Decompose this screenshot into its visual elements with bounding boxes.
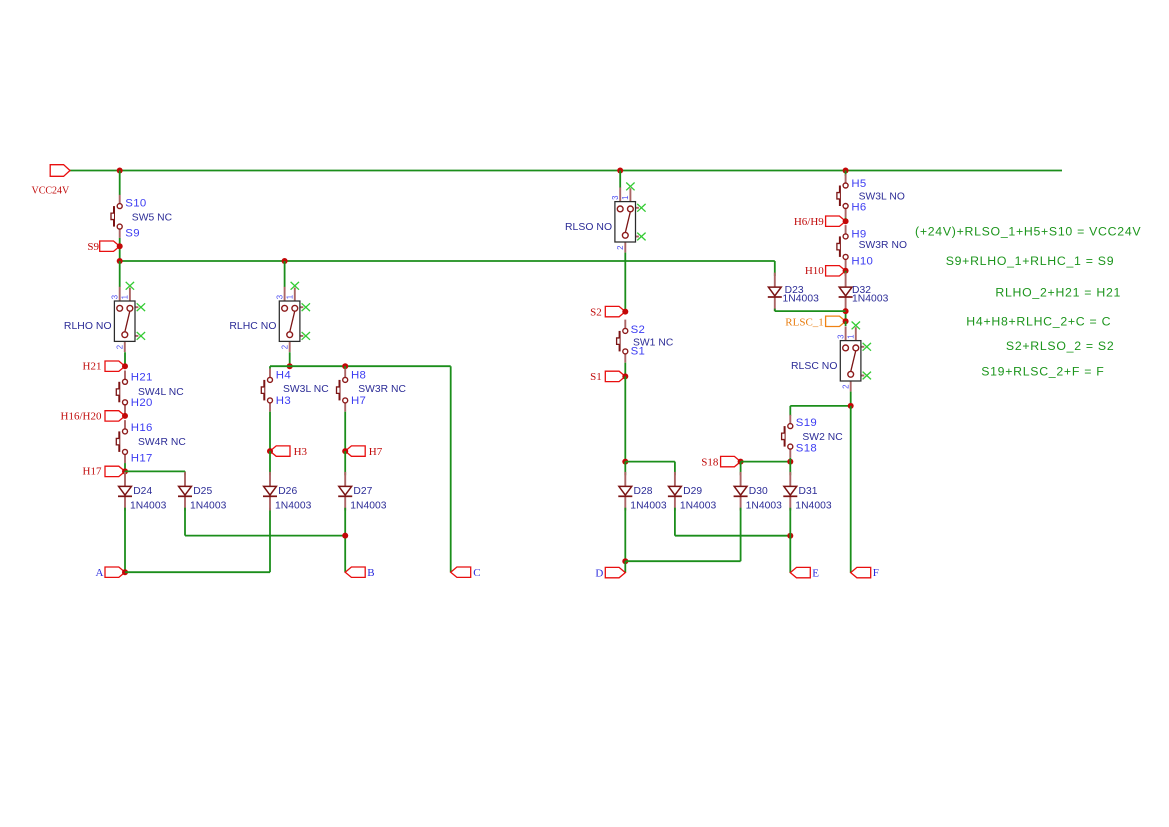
label B text xyxy=(367,567,374,579)
net equation text line 2 xyxy=(946,254,1115,268)
label SW2 NC xyxy=(802,432,843,443)
svg-text:D: D xyxy=(595,567,603,579)
hierarchical label H6/H9 flag xyxy=(826,216,849,226)
label D31 value 1N4003 xyxy=(795,500,832,511)
wire to D30 xyxy=(740,462,742,476)
label D30 value 1N4003 xyxy=(746,500,783,511)
hierarchical label H10 flag xyxy=(826,266,849,276)
hierarchical label H17 flag xyxy=(105,466,128,476)
wire branch down to D25 xyxy=(184,471,186,475)
hierarchical label H7 flag xyxy=(342,446,365,456)
label S19 pin xyxy=(796,417,817,429)
label D26 xyxy=(278,486,297,497)
wire up to D26 xyxy=(269,508,271,573)
junction bus-RLSO column xyxy=(617,168,623,174)
svg-text:1N4003: 1N4003 xyxy=(746,500,783,511)
label D31 xyxy=(799,486,818,497)
wire D25 to B net xyxy=(185,535,345,537)
label H3 pin xyxy=(276,395,291,407)
svg-text:H7: H7 xyxy=(351,395,366,407)
svg-text:RLSC NO: RLSC NO xyxy=(791,361,838,372)
relay RLHC xyxy=(229,282,310,352)
svg-text:SW4R NC: SW4R NC xyxy=(138,437,186,448)
svg-text:2: 2 xyxy=(616,246,625,250)
svg-text:1: 1 xyxy=(121,295,130,299)
wire D30 down xyxy=(740,508,742,562)
svg-text:H7: H7 xyxy=(369,446,383,458)
label SW4L NC xyxy=(138,387,184,398)
svg-text:3: 3 xyxy=(611,196,620,200)
svg-text:SW3L NC: SW3L NC xyxy=(283,384,329,395)
svg-text:3: 3 xyxy=(275,295,284,299)
svg-text:1N4003: 1N4003 xyxy=(783,294,820,305)
svg-text:S10: S10 xyxy=(125,197,146,209)
svg-text:2: 2 xyxy=(115,345,124,349)
svg-text:H8: H8 xyxy=(351,369,366,381)
wire RLSC_1 to RLSC pin3 xyxy=(845,321,847,326)
label D30 xyxy=(749,486,768,497)
label D32 value 1N4003 xyxy=(852,294,889,305)
svg-text:SW3R NO: SW3R NO xyxy=(859,240,907,251)
label H4 pin xyxy=(276,369,291,381)
power flag VCC24V xyxy=(32,165,71,197)
svg-text:S19: S19 xyxy=(796,417,817,429)
svg-text:H17: H17 xyxy=(83,466,102,478)
junction bus-SW5 column xyxy=(117,168,123,174)
wire to D flag xyxy=(624,561,626,572)
svg-text:3: 3 xyxy=(836,335,845,339)
svg-text:1: 1 xyxy=(621,196,630,200)
hierarchical label A xyxy=(105,567,128,577)
diode D25 xyxy=(178,472,192,511)
svg-text:RLSO NO: RLSO NO xyxy=(565,222,612,233)
svg-text:S1: S1 xyxy=(631,345,646,357)
label S9 flag text xyxy=(87,241,99,253)
wire down to SW2 xyxy=(789,406,791,416)
svg-text:1N4003: 1N4003 xyxy=(795,500,832,511)
svg-text:1N4003: 1N4003 xyxy=(275,500,312,511)
net equation text line 6 xyxy=(981,365,1104,379)
junction D23/D32 xyxy=(843,308,849,314)
svg-text:H10: H10 xyxy=(851,255,873,267)
wire row to SW3L xyxy=(269,366,271,369)
switch SW3R NC (H8/H7) xyxy=(337,369,348,412)
svg-text:H3: H3 xyxy=(276,395,291,407)
hierarchical label H21 flag xyxy=(105,361,128,371)
wire SW4R to H17 flag xyxy=(124,463,126,471)
label H5 pin xyxy=(851,178,866,190)
label H7 flag text xyxy=(369,446,383,458)
svg-text:RLHC NO: RLHC NO xyxy=(229,321,276,332)
label S1 flag text xyxy=(590,371,602,383)
wire S1 down xyxy=(624,376,626,461)
label D28 value 1N4003 xyxy=(630,500,667,511)
diode D24 xyxy=(118,472,132,511)
label S18 flag text xyxy=(701,457,719,469)
label D text xyxy=(595,567,603,579)
label S2 flag text xyxy=(590,307,602,319)
label S10 xyxy=(125,197,146,209)
label H16/H20 flag text xyxy=(61,410,102,422)
svg-text:D29: D29 xyxy=(683,486,702,497)
wire to F flag xyxy=(850,406,852,573)
relay RLHO xyxy=(64,282,145,352)
wire SW1 to S1 flag xyxy=(624,363,626,377)
svg-text:S9+RLHO_1+RLHC_1 = S9: S9+RLHO_1+RLHC_1 = S9 xyxy=(946,254,1115,268)
diode D31 xyxy=(783,472,797,511)
svg-text:RLHO NO: RLHO NO xyxy=(64,321,112,332)
switch SW5 (S10/S9) xyxy=(111,195,122,238)
wire H17 to D24 xyxy=(124,471,126,475)
label H6 pin xyxy=(851,201,866,213)
label RLSC_1 flag text xyxy=(785,316,824,328)
wire H17 to D25 branch xyxy=(125,470,185,472)
wire second bus S9 net xyxy=(120,260,775,262)
svg-text:RLSC_1: RLSC_1 xyxy=(785,316,824,328)
svg-text:(+24V)+RLSO_1+H5+S10 = VCC24V: (+24V)+RLSO_1+H5+S10 = VCC24V xyxy=(915,224,1141,238)
wire H7 to D27 xyxy=(344,451,346,475)
svg-text:H4+H8+RLHC_2+C = C: H4+H8+RLHC_2+C = C xyxy=(966,315,1111,329)
svg-text:H10: H10 xyxy=(805,265,824,277)
wire SW3L to H3 flag xyxy=(269,412,271,451)
wire D25 down xyxy=(184,508,186,536)
label SW1 NC xyxy=(633,338,674,349)
label D27 value 1N4003 xyxy=(350,500,387,511)
wire SW4L to H16/H20 flag xyxy=(124,413,126,416)
net equation text line 1 xyxy=(915,224,1141,238)
wire RLSO pin2 down to S2 xyxy=(624,253,626,312)
net equation text line 3 xyxy=(995,286,1121,300)
wire RLHC pin2 down xyxy=(289,352,291,366)
wire D27 to B flag xyxy=(344,508,346,573)
label H7 pin xyxy=(351,395,366,407)
wire bus2 to RLHC pin3 xyxy=(284,261,286,287)
diode D32 xyxy=(839,273,853,312)
diode D30 xyxy=(734,472,748,511)
label C text xyxy=(473,567,480,579)
svg-text:D24: D24 xyxy=(133,486,152,497)
label H17 pin xyxy=(131,453,153,465)
net equation text line 4 xyxy=(966,315,1111,329)
diode D29 xyxy=(668,472,682,511)
label D23 value 1N4003 xyxy=(783,294,820,305)
label SW3R NC xyxy=(358,384,406,395)
wire D24 to A xyxy=(124,508,126,573)
svg-text:S19+RLSC_2+F = F: S19+RLSC_2+F = F xyxy=(981,365,1104,379)
svg-text:1N4003: 1N4003 xyxy=(190,500,227,511)
junction B net xyxy=(342,533,348,539)
wire H3 to D26 xyxy=(269,451,271,475)
label SW3R NO xyxy=(859,240,907,251)
hierarchical label E xyxy=(790,567,810,577)
switch SW3L NO (H5/H6) xyxy=(837,174,848,217)
label S18 pin xyxy=(796,443,817,455)
svg-text:A: A xyxy=(96,567,104,579)
label H8 pin xyxy=(351,369,366,381)
net equation text line 5 xyxy=(1006,339,1115,353)
label H16 pin xyxy=(131,422,153,434)
svg-text:S2: S2 xyxy=(590,307,602,319)
label H6/H9 flag text xyxy=(794,216,824,228)
svg-text:1N4003: 1N4003 xyxy=(680,500,717,511)
wire row to SW3R xyxy=(344,366,346,369)
wire to D29 xyxy=(674,462,676,476)
label D32 xyxy=(852,285,871,296)
junction SW3R branch xyxy=(342,363,348,369)
label D29 value 1N4003 xyxy=(680,500,717,511)
svg-text:2: 2 xyxy=(841,385,850,389)
wire S18 row xyxy=(741,461,791,463)
junction D net xyxy=(622,558,628,564)
svg-text:D31: D31 xyxy=(799,486,818,497)
wire SW5 to S9 flag xyxy=(119,238,121,261)
switch SW3L NC (H4/H3) xyxy=(261,369,272,412)
svg-text:SW5 NC: SW5 NC xyxy=(132,212,173,223)
svg-text:H20: H20 xyxy=(131,397,153,409)
wire D31 to E flag xyxy=(789,508,791,573)
wire to D31 xyxy=(789,462,791,476)
hierarchical label S18 flag xyxy=(721,456,744,466)
wire RLSC pin2 down xyxy=(850,392,852,406)
switch SW3R NO (H9/H10) xyxy=(837,225,848,268)
label H20 pin xyxy=(131,397,153,409)
label D25 value 1N4003 xyxy=(190,500,227,511)
svg-text:2: 2 xyxy=(280,345,289,349)
svg-text:1: 1 xyxy=(286,295,295,299)
svg-text:S2: S2 xyxy=(631,324,646,336)
junction SW2 bottom xyxy=(787,459,793,465)
hierarchical label F xyxy=(851,567,871,577)
label D29 xyxy=(683,486,702,497)
label D27 xyxy=(353,486,372,497)
label H21 flag text xyxy=(83,360,102,372)
diode D27 xyxy=(338,472,352,511)
svg-text:H6/H9: H6/H9 xyxy=(794,216,824,228)
junction RLSC pin2 xyxy=(848,403,854,409)
hierarchical label S2 flag xyxy=(605,306,628,316)
junction E net xyxy=(787,533,793,539)
svg-text:1: 1 xyxy=(847,335,856,339)
label D23 xyxy=(785,285,804,296)
relay RLSO xyxy=(565,183,646,253)
label H17 flag text xyxy=(83,466,102,478)
wire SW2 to S18 junction xyxy=(789,458,791,462)
svg-text:1N4003: 1N4003 xyxy=(852,294,889,305)
label H10 flag text xyxy=(805,265,824,277)
hierarchical label RLSC_1 flag xyxy=(826,316,849,326)
label S2 pin xyxy=(631,324,646,336)
svg-text:D30: D30 xyxy=(749,486,768,497)
switch SW2 (S19/S18) xyxy=(782,415,793,458)
svg-text:RLHO_2+H21 = H21: RLHO_2+H21 = H21 xyxy=(995,286,1121,300)
svg-text:S18: S18 xyxy=(701,457,719,469)
junction RLHC pin2 xyxy=(287,363,293,369)
wire D29 down xyxy=(674,508,676,536)
label S9 pin xyxy=(125,228,140,240)
wire bus to SW3L NO xyxy=(845,171,847,177)
svg-text:H21: H21 xyxy=(131,371,153,383)
wire H10 to D32 xyxy=(845,271,847,276)
wire SW3L NO to H6/H9 flag xyxy=(845,217,847,221)
svg-text:E: E xyxy=(812,567,819,579)
svg-text:S18: S18 xyxy=(796,443,817,455)
label H9 pin xyxy=(851,228,866,240)
svg-text:S2+RLSO_2 = S2: S2+RLSO_2 = S2 xyxy=(1006,339,1115,353)
hierarchical label D xyxy=(605,567,625,577)
svg-text:3: 3 xyxy=(111,295,120,299)
svg-text:1N4003: 1N4003 xyxy=(130,500,167,511)
label H3 flag text xyxy=(294,446,308,458)
svg-text:D28: D28 xyxy=(634,486,653,497)
hierarchical label H16/H20 flag xyxy=(105,411,128,421)
svg-text:B: B xyxy=(367,567,374,579)
svg-text:H4: H4 xyxy=(276,369,291,381)
wire D29 to D31 column xyxy=(675,535,790,537)
label D24 value 1N4003 xyxy=(130,500,167,511)
svg-text:S1: S1 xyxy=(590,371,602,383)
svg-text:D25: D25 xyxy=(193,486,212,497)
wire bus2 to RLHO pin3 xyxy=(119,261,121,287)
svg-text:H9: H9 xyxy=(851,228,866,240)
wire RLSC pin2 row xyxy=(790,405,850,407)
label A text xyxy=(96,567,104,579)
svg-text:F: F xyxy=(873,567,879,579)
wire branch to D29 xyxy=(625,461,675,463)
svg-text:SW3R NC: SW3R NC xyxy=(358,384,406,395)
wire main VCC24V bus xyxy=(70,170,1062,172)
svg-text:S9: S9 xyxy=(125,228,140,240)
wire D23 down xyxy=(774,309,776,312)
wire D28 down xyxy=(624,508,626,562)
svg-text:H3: H3 xyxy=(294,446,308,458)
label D24 xyxy=(133,486,152,497)
svg-text:H17: H17 xyxy=(131,453,153,465)
svg-text:H16/H20: H16/H20 xyxy=(61,410,102,422)
hierarchical label B xyxy=(345,567,365,577)
wire A to D26 column xyxy=(125,571,270,573)
wire bus to RLSO pin3 xyxy=(619,171,621,188)
svg-text:1N4003: 1N4003 xyxy=(350,500,387,511)
wire row to C xyxy=(450,366,452,572)
junction bus-H5 column xyxy=(843,168,849,174)
label D26 value 1N4003 xyxy=(275,500,312,511)
hierarchical label C xyxy=(451,567,471,577)
label SW3L NC xyxy=(283,384,329,395)
wire RLHC row xyxy=(270,365,451,367)
diode D26 xyxy=(263,472,277,511)
label H21 pin xyxy=(131,371,153,383)
wire D32 down xyxy=(845,309,847,322)
hierarchical label S9 flag xyxy=(100,241,123,251)
wire RLHO pin2 to H21 xyxy=(124,352,126,366)
wire bus to SW5 xyxy=(119,171,121,196)
switch SW4L (H21/H20) xyxy=(116,371,127,414)
junction S9 bus tee xyxy=(117,258,123,264)
wire to D28 xyxy=(624,462,626,476)
label D25 xyxy=(193,486,212,497)
label SW5 NC xyxy=(132,212,173,223)
relay RLSC xyxy=(791,322,871,392)
diode D28 xyxy=(618,472,632,511)
hierarchical label H3 flag xyxy=(267,446,290,456)
wire D30 to D28 column xyxy=(625,560,740,562)
label SW3L NO xyxy=(859,192,905,203)
svg-text:VCC24V: VCC24V xyxy=(32,186,71,197)
svg-text:H6: H6 xyxy=(851,201,866,213)
svg-text:D27: D27 xyxy=(353,486,372,497)
wire SW3R to H7 flag xyxy=(344,412,346,451)
diode D23 xyxy=(768,273,782,312)
svg-text:D26: D26 xyxy=(278,486,297,497)
svg-text:H21: H21 xyxy=(83,360,102,372)
junction D28/D29 branch xyxy=(622,459,628,465)
switch SW4R (H16/H17) xyxy=(116,420,127,463)
svg-text:H16: H16 xyxy=(131,422,153,434)
wire D23 to D32 junction xyxy=(775,310,846,312)
svg-text:C: C xyxy=(473,567,480,579)
svg-text:H5: H5 xyxy=(851,178,866,190)
label E text xyxy=(812,567,819,579)
label S1 pin xyxy=(631,345,646,357)
svg-text:1N4003: 1N4003 xyxy=(630,500,667,511)
hierarchical label S1 flag xyxy=(605,371,628,381)
label SW4R NC xyxy=(138,437,186,448)
label H10 pin xyxy=(851,255,873,267)
wire bus2 end down xyxy=(774,261,776,276)
svg-text:S9: S9 xyxy=(87,241,99,253)
junction bus2-RLHC column xyxy=(282,258,288,264)
label F text xyxy=(873,567,879,579)
switch SW1 (S2/S1) xyxy=(617,320,628,363)
label D28 xyxy=(634,486,653,497)
wire SW3R NO to H10 flag xyxy=(845,268,847,271)
